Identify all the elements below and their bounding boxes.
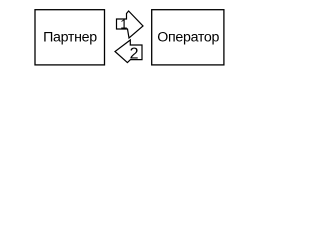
arrow 2 left-pointing block arrow [115, 40, 142, 63]
box Оператор [152, 10, 224, 65]
svg-text:Оператор: Оператор [157, 29, 219, 45]
svg-text:1: 1 [120, 17, 127, 32]
svg-text:Партнер: Партнер [43, 29, 97, 45]
svg-text:2: 2 [130, 45, 139, 62]
box Партнер [35, 10, 105, 65]
arrow 1 right-pointing block arrow [117, 11, 144, 38]
